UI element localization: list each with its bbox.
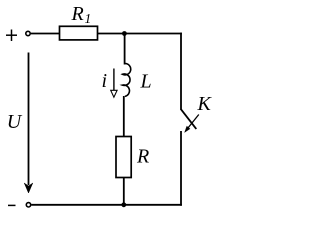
wire right branch lower [180, 131, 182, 206]
resistor R1 [60, 26, 98, 40]
wire middle branch between L and R [123, 96, 125, 137]
voltage arrow U [24, 53, 33, 194]
wire right branch upper [180, 33, 182, 110]
switch K blade [181, 109, 196, 129]
inductor L [123, 63, 131, 96]
wire top-left [31, 33, 60, 35]
switch K arrow [185, 115, 199, 133]
current arrow i [111, 69, 117, 98]
plus sign of source [6, 30, 17, 42]
terminal + [26, 31, 30, 35]
svg-text:U: U [7, 111, 23, 133]
svg-text:1: 1 [85, 11, 92, 26]
wire top-right [98, 33, 182, 35]
svg-text:R: R [136, 145, 149, 167]
wire middle branch upper [124, 34, 126, 65]
svg-text:R: R [71, 3, 84, 25]
node top junction [122, 31, 127, 36]
svg-text:L: L [140, 70, 152, 92]
wire middle branch lower [123, 178, 125, 206]
resistor R [116, 137, 131, 178]
svg-text:K: K [197, 93, 213, 115]
terminal - [26, 203, 30, 207]
node bottom junction [121, 202, 126, 207]
minus sign of source [8, 204, 16, 206]
svg-text:i: i [102, 70, 108, 92]
wire bottom [31, 204, 182, 206]
